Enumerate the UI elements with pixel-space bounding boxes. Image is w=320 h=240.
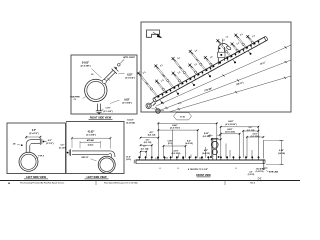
box1 end flange [39, 138, 41, 145]
svg-text:(0-4 1/2): (0-4 1/2) [202, 152, 210, 155]
box1 riser pipe [25, 144, 27, 152]
svg-text:0.5″: 0.5″ [61, 144, 65, 146]
elevation left end cap [135, 159, 137, 163]
svg-text:(0′-8 1/4″): (0′-8 1/4″) [125, 77, 135, 80]
svg-text:(0-3 3/16): (0-3 3/16) [251, 136, 260, 138]
svg-text:3.1: 3.1 [182, 158, 184, 160]
iso pipe right end cap [264, 36, 268, 41]
svg-text:⊕: ⊕ [8, 182, 10, 185]
box2 dim 41.63 [71, 137, 73, 148]
svg-text:(0′-1 3/4″): (0′-1 3/4″) [104, 110, 113, 113]
svg-text:(0-5 5/8): (0-5 5/8) [203, 136, 211, 138]
svg-text:(0-1 1/4): (0-1 1/4) [141, 147, 149, 150]
iso dimension line 3 [169, 76, 291, 112]
svg-text:(0-8 13/16): (0-8 13/16) [225, 132, 235, 134]
iso lateral branch 11 [236, 37, 246, 49]
svg-text:HUB PIPE: HUB PIPE [70, 96, 80, 98]
isometric view panel border [141, 22, 291, 112]
iso lateral branch 8 [206, 59, 213, 68]
svg-text:(0-2 1/2): (0-2 1/2) [248, 174, 255, 176]
panel A pipe end circle [85, 79, 107, 101]
elevation dimension lines [158, 122, 217, 124]
svg-text:(3′-5 5/8″): (3′-5 5/8″) [86, 135, 96, 137]
svg-text:WTR JOINT: WTR JOINT [123, 57, 135, 59]
svg-text:(0-10): (0-10) [126, 159, 131, 161]
elevation right vertical dimension [262, 140, 264, 158]
iso lateral branch 7 [191, 53, 206, 72]
svg-text:(0-4 1/2): (0-4 1/2) [148, 134, 156, 137]
elevation riser [212, 139, 214, 161]
svg-text:(0′-9 5/8″): (0′-9 5/8″) [122, 103, 132, 105]
box2 pipe end circle [98, 156, 115, 173]
iso pipe left end cap [152, 98, 156, 103]
iso flange leader [152, 109, 165, 111]
svg-text:4.5: 4.5 [199, 156, 201, 159]
key plan icon with view arrow [147, 30, 163, 38]
svg-text:(0′-1/2″): (0′-1/2″) [59, 147, 66, 149]
panel A 45deg branch pipe [104, 73, 115, 84]
iso riser cylinder [217, 49, 219, 65]
svg-text:Pipe Spool Weld Layout 71′-0 1: Pipe Spool Weld Layout 71′-0 1/2 OAL [104, 182, 139, 185]
svg-text:2.5: 2.5 [165, 157, 167, 159]
svg-text:(0′-1/2″): (0′-1/2″) [46, 143, 54, 145]
box1 pipe end circle [19, 152, 38, 171]
svg-text:(0′-8 13/16″): (0′-8 13/16″) [225, 124, 237, 126]
box1 dim 4.5 [25, 136, 27, 139]
iso lateral branch 9 [218, 42, 231, 58]
iso lateral branch 6 [190, 67, 198, 76]
box2 left flange [70, 149, 72, 156]
left side view box border [7, 123, 66, 173]
svg-text:(0′-4 1/2″): (0′-4 1/2″) [29, 132, 39, 135]
svg-text:(0-8 1/4): (0-8 1/4) [278, 152, 285, 155]
svg-text:(0-4 1/2): (0-4 1/2) [185, 142, 193, 145]
svg-text:(0-10 1/2): (0-10 1/2) [256, 171, 264, 173]
panel A bottom stub pipe [97, 104, 99, 111]
svg-text:8.25″: 8.25″ [127, 74, 133, 76]
svg-text:EXP JT: EXP JT [82, 157, 90, 159]
title strip rule [0, 179, 300, 181]
spool balloon hexagon [174, 113, 192, 120]
iso lateral branch 2 [157, 83, 166, 94]
svg-text:(2′-0 7/16″): (2′-0 7/16″) [170, 128, 180, 130]
svg-text:(2.5m): (2.5m) [88, 145, 94, 147]
panel A dim leader 24.63 [95, 72, 102, 79]
svg-text:17.81: 17.81 [180, 117, 186, 119]
iso dimension line 1 [156, 45, 291, 106]
title strip divider [95, 180, 97, 185]
iso lateral branch 5 [174, 60, 190, 80]
svg-text:ATR 487: ATR 487 [87, 139, 94, 142]
svg-text:1-9: 1-9 [226, 37, 229, 39]
svg-text:8.25″: 8.25″ [279, 150, 284, 152]
front side view panel border [71, 55, 137, 114]
iso left elbow stub [150, 102, 153, 105]
iso lateral branch 10 [233, 46, 239, 54]
iso dimension line 2 [159, 60, 292, 111]
svg-text:TYP 4: TYP 4 [38, 154, 44, 157]
box2 elbow down [110, 151, 115, 157]
elevation right end drop [263, 163, 265, 168]
svg-text:(0-3 1/2): (0-3 1/2) [144, 142, 152, 144]
box2 horizontal pipe [72, 150, 110, 152]
box2 dim inner [79, 141, 81, 148]
svg-text:1.06: 1.06 [155, 158, 158, 160]
elevation extension lines [140, 151, 142, 158]
svg-text:LEFT SIDE VIEW: LEFT SIDE VIEW [87, 176, 108, 179]
elevation right end cap [262, 159, 264, 163]
iso lower flange ring [156, 109, 161, 114]
iso drop nipples [160, 100, 163, 103]
iso main header pipe [154, 37, 266, 98]
svg-text:This Drawing Provided By PipeF: This Drawing Provided By PipeFab Spool S… [20, 183, 64, 185]
svg-text:WTR LINE: WTR LINE [269, 172, 279, 174]
svg-text:RIGHT SIDE VIEW: RIGHT SIDE VIEW [90, 117, 112, 120]
svg-text:(0-2 1/2): (0-2 1/2) [247, 130, 255, 132]
svg-text:(0-1): (0-1) [168, 143, 173, 145]
iso dimension arrow ticks [162, 102, 164, 104]
box1 elbow [26, 140, 40, 144]
svg-text:FRONT VIEW: FRONT VIEW [196, 175, 211, 177]
svg-text:60°: 60° [91, 74, 94, 76]
box1 dot mark [21, 144, 23, 146]
iso lateral branch 12 [248, 38, 254, 45]
iso left flange ring [146, 103, 151, 108]
elevation pipe body [136, 160, 265, 163]
svg-text:9.63″: 9.63″ [124, 99, 130, 101]
svg-text:(0-3 3/16): (0-3 3/16) [172, 153, 181, 155]
iso lateral branch 3 [156, 68, 174, 90]
svg-text:41.63″: 41.63″ [88, 130, 96, 133]
svg-text:24.63″: 24.63″ [82, 61, 90, 64]
svg-text:(0-10 5/8): (0-10 5/8) [126, 122, 135, 124]
svg-text:(2′-0 5/8″): (2′-0 5/8″) [81, 66, 91, 68]
iso pipe joint marks [162, 94, 164, 98]
svg-text:10.63″: 10.63″ [127, 120, 134, 122]
svg-text:LEFT SIDE VIEW: LEFT SIDE VIEW [26, 176, 47, 179]
iso lateral branch 4 [174, 75, 182, 85]
second side view box border [66, 122, 124, 174]
elevation riser top marks [208, 134, 213, 136]
elevation branch outlets [138, 158, 140, 160]
panel A vent fitting [112, 69, 117, 74]
svg-text:6 7/8 DPS 71′-0 1/2″: 6 7/8 DPS 71′-0 1/2″ [188, 169, 209, 171]
svg-text:750 A: 750 A [250, 182, 256, 185]
iso lateral branch 1 [139, 75, 158, 98]
